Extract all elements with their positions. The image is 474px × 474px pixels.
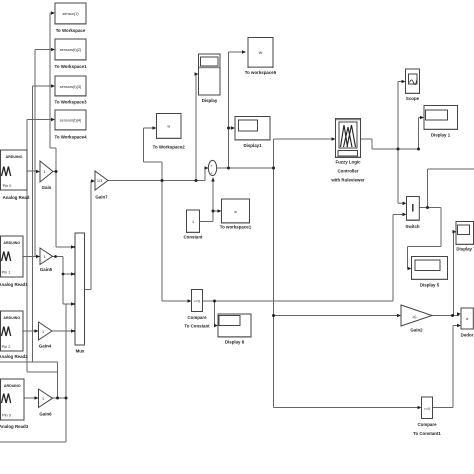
svg-text:To Workspace4: To Workspace4 [54,135,87,140]
svg-text:with Ruleviewer: with Ruleviewer [330,178,364,183]
svg-text:sensors(t)(2): sensors(t)(2) [60,48,82,52]
svg-text:Pin 3: Pin 3 [2,414,11,418]
svg-text:ARDUINO: ARDUINO [6,155,23,159]
svg-text:1: 1 [192,220,194,224]
svg-text:w: w [167,125,170,129]
svg-text:Display 5: Display 5 [420,283,440,288]
svg-text:<=0: <=0 [424,407,431,411]
svg-text:To workspace1: To workspace1 [220,225,252,230]
svg-text:1: 1 [42,397,44,401]
svg-text:Fuzzy Logic: Fuzzy Logic [335,160,361,165]
svg-text:Gain: Gain [42,185,52,190]
svg-text:-K-: -K- [412,315,418,320]
svg-text:Gain2: Gain2 [410,328,423,333]
svg-text:Pin 2: Pin 2 [2,345,11,349]
svg-text:Analog Read2: Analog Read2 [0,354,28,359]
svg-text:To Constant1: To Constant1 [413,431,441,436]
svg-text:Gain5: Gain5 [40,267,53,272]
svg-text:1: 1 [43,255,45,259]
svg-text:To Workspace2: To Workspace2 [153,145,186,150]
svg-text:sensors(t)(3): sensors(t)(3) [60,85,82,89]
svg-text:1/3: 1/3 [97,179,102,183]
svg-text:To Workspace1: To Workspace1 [54,64,87,69]
svg-text:Gain4: Gain4 [39,344,52,349]
svg-text:sensors(t)(4): sensors(t)(4) [60,119,82,123]
svg-text:Dedor: Dedor [461,333,474,338]
svg-text:Display 7: Display 7 [456,247,474,252]
svg-text:ARDUINO: ARDUINO [3,316,20,320]
svg-text:Mux: Mux [76,349,85,354]
svg-text:1: 1 [42,330,44,334]
svg-text:To workspace5: To workspace5 [245,70,277,75]
svg-text:Scope: Scope [406,96,420,101]
svg-text:ARDUINO: ARDUINO [3,241,20,245]
svg-text:sensor(1): sensor(1) [62,12,79,16]
svg-text:Pin 1: Pin 1 [2,271,11,275]
svg-text:To Workspace3: To Workspace3 [54,100,87,105]
svg-text:Constant: Constant [183,235,203,240]
svg-text:Display 8: Display 8 [225,340,245,345]
svg-text:Display1: Display1 [243,143,262,148]
svg-text:Switch: Switch [405,224,419,229]
svg-text:1: 1 [43,170,45,174]
svg-text:Display 1: Display 1 [431,133,451,138]
svg-text:Analog Read: Analog Read [3,195,30,200]
svg-text:Compare: Compare [417,422,437,427]
svg-text:ARDUINO: ARDUINO [4,384,21,388]
svg-text:Gain6: Gain6 [39,412,52,417]
svg-text:To Constant: To Constant [184,324,210,329]
svg-text:Gain7: Gain7 [95,195,108,200]
svg-text:Controller: Controller [338,169,359,174]
svg-text:Analog Read1: Analog Read1 [0,282,28,287]
svg-text:w: w [234,210,237,214]
svg-text:Pin 0: Pin 0 [3,184,12,188]
svg-text:W: W [259,51,263,55]
svg-text:Display: Display [202,98,218,103]
svg-text:To Workspace: To Workspace [56,28,86,33]
svg-text:Compare: Compare [187,315,207,320]
svg-text:Analog Read3: Analog Read3 [0,424,29,429]
svg-text:<=0: <=0 [194,300,201,304]
